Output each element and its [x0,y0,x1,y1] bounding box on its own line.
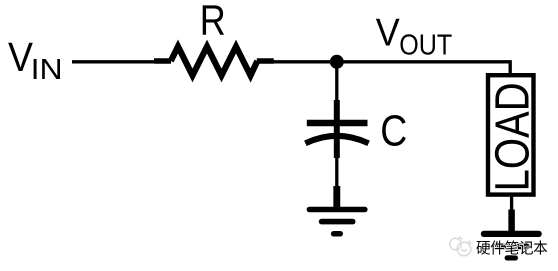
svg-text:V: V [376,11,400,54]
wire junction down to capacitor [335,62,338,103]
label VOUT [376,11,453,61]
wire junction to load corner [337,62,510,76]
svg-text:LOAD: LOAD [487,82,540,191]
svg-text:OUT: OUT [399,30,452,62]
ground (load) [481,231,542,261]
wire resistor to junction [272,60,337,63]
ground (load) middle bar [493,244,530,250]
junction node dot [330,55,344,69]
ground (capacitor) [307,207,368,237]
capacitor C [305,100,368,158]
resistor R [154,47,274,76]
wire VIN to resistor [72,60,156,63]
watermark logo [450,237,471,256]
load box [487,75,540,194]
wire load to ground [510,196,513,211]
wire capacitor to ground [335,156,338,188]
svg-text:C: C [380,107,407,156]
node VIN label [8,34,63,86]
svg-text:R: R [200,0,226,44]
svg-text:IN: IN [31,54,63,86]
